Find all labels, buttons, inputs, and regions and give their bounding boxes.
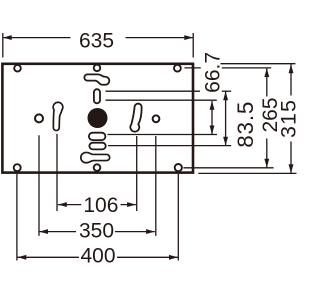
svg-text:83.5: 83.5 — [233, 101, 258, 148]
slot center vertical capsule — [94, 89, 100, 103]
slot top-center peanut — [84, 74, 109, 84]
svg-text:350: 350 — [79, 220, 114, 243]
dimension 83.5 line — [225, 92, 227, 146]
ext line right of plate bottom edge — [198, 172, 296, 174]
slot keyhole left — [53, 102, 63, 130]
dimension 635 arrow right — [184, 35, 193, 40]
svg-text:400: 400 — [80, 245, 115, 268]
slot keyhole right — [130, 104, 141, 132]
slot bottom-center peanut — [81, 152, 110, 162]
ext line capsule bottom — [106, 99, 217, 101]
ext line right of bottom-right hole — [184, 167, 274, 169]
dimension 66.7 line — [211, 101, 213, 134]
hole bottom-center — [94, 164, 101, 171]
hole top-left — [14, 65, 21, 72]
slot below knockout 2 — [89, 143, 105, 150]
dimension 315 line — [290, 64, 292, 95]
ext line slot1 — [108, 134, 218, 136]
knockout center (filled) — [88, 108, 108, 128]
ext line below mid-left hole — [38, 135, 40, 236]
dimension 635 arrow left — [3, 35, 12, 40]
dimension 635 line — [3, 37, 70, 39]
plate outline — [2, 64, 193, 173]
svg-text:106: 106 — [83, 194, 118, 217]
ext line below mid-right hole — [155, 136, 157, 236]
svg-text:315: 315 — [277, 99, 301, 138]
dimension 400 line — [17, 256, 79, 258]
ext line below bottom-left hole — [16, 174, 18, 261]
hole mid-left — [35, 114, 43, 122]
svg-text:635: 635 — [79, 30, 114, 53]
svg-text:66.7: 66.7 — [202, 52, 225, 93]
hole mid-right — [153, 115, 160, 122]
ext line below right keyhole — [136, 136, 138, 211]
ext line capsule top — [106, 90, 201, 92]
hole bottom-right — [175, 164, 182, 171]
hole bottom-left — [14, 164, 21, 171]
hole top-center — [94, 65, 101, 72]
dimension 350 line — [39, 231, 76, 233]
ext line right of top-right hole — [185, 67, 201, 69]
ext line slot2 — [108, 145, 231, 147]
dimension 635 extension tick right — [192, 33, 194, 58]
ext line below left keyhole — [56, 134, 58, 211]
dimension 635 extension tick left — [2, 33, 4, 58]
hole top-right — [174, 65, 181, 72]
dimension 265 line — [266, 68, 268, 96]
dimension 106 line — [58, 204, 82, 206]
ext line below bottom-right hole — [177, 174, 179, 261]
slot below knockout 1 — [89, 133, 106, 140]
ext line right of plate top edge — [221, 63, 296, 65]
